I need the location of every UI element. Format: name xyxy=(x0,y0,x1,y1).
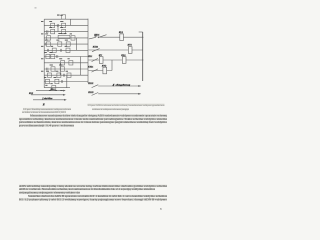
svg-text:veikimo ir valdymo schemos jun: veikimo ir valdymo schemos jungtys xyxy=(92,108,129,111)
wire row 4 xyxy=(88,70,112,72)
left rail xyxy=(43,19,45,88)
wire rung 7 xyxy=(44,56,88,58)
wire rung 2 xyxy=(44,24,88,26)
right rail xyxy=(87,19,89,83)
relay contact K9 xyxy=(58,42,62,46)
relay contact K11 xyxy=(52,48,56,52)
wire rung 4 xyxy=(44,37,88,39)
relay coil K21 xyxy=(67,73,71,77)
contact ticks on rung 10 xyxy=(62,74,64,77)
relay coil KV1 xyxy=(128,47,132,54)
contact tick marks xyxy=(44,24,64,83)
wire branch b xyxy=(57,25,59,31)
svg-text:KL1: KL1 xyxy=(50,88,55,91)
wire rung 6 xyxy=(44,49,88,51)
contact ticks on rung 6 xyxy=(46,49,48,52)
svg-text:KY21: KY21 xyxy=(87,66,93,69)
contact ticks on rung 7 xyxy=(56,55,58,58)
svg-text:Į siurblius: Į siurblius xyxy=(42,97,53,100)
relay coil K1 xyxy=(62,15,66,19)
relay coil K18 xyxy=(61,67,65,71)
relay contact K14 xyxy=(51,54,55,58)
relay contact K4 xyxy=(51,29,55,33)
svg-text:KL2: KL2 xyxy=(28,92,34,95)
contact ticks on rung 2 xyxy=(56,24,58,27)
wire rung 8 xyxy=(44,62,88,64)
relay contact K20 xyxy=(57,73,61,77)
contact KL21 xyxy=(92,85,99,88)
relay contact K13 xyxy=(46,54,50,58)
contact ticks on rung 6 xyxy=(59,49,61,52)
rail junction dot row3 xyxy=(142,59,143,60)
wire rung 5 xyxy=(44,43,88,45)
svg-text:KV1: KV1 xyxy=(127,44,132,47)
svg-text:KV2: KV2 xyxy=(101,64,107,67)
contact ticks on rung 9 xyxy=(46,68,48,71)
relay coil K16 xyxy=(69,61,73,65)
wire branch e xyxy=(59,63,61,75)
contact KL1 xyxy=(92,58,99,61)
relay coil KL1 xyxy=(120,34,124,41)
relay contact K2 xyxy=(51,23,55,27)
svg-text:N: N xyxy=(42,103,45,106)
svg-text:KY11: KY11 xyxy=(93,34,99,37)
left schematic output arrow B with label KL2 xyxy=(31,94,66,96)
relay coil K12 xyxy=(66,48,70,52)
wire rung 11 xyxy=(44,81,88,83)
wire junction row3-row4 xyxy=(111,60,113,71)
relay contact K22 xyxy=(46,79,50,83)
contact ticks on rung 11 xyxy=(60,80,62,83)
relay contact K24 xyxy=(52,86,56,90)
wire branch c xyxy=(76,38,78,50)
svg-text:KL1: KL1 xyxy=(87,55,92,58)
svg-text:KV: KV xyxy=(98,54,103,57)
relay contact K19 xyxy=(48,73,52,77)
wire rung 10 xyxy=(44,74,88,76)
contact ticks on rung 3 xyxy=(46,30,48,33)
contact KT21 xyxy=(92,49,100,52)
relay coil K15 xyxy=(61,61,65,65)
wire rung 12 xyxy=(44,87,70,89)
wire row 2 xyxy=(89,49,143,51)
wire row 1 xyxy=(100,36,143,38)
svg-text:Į degimą: Į degimą xyxy=(111,83,132,86)
output arrow to ignition xyxy=(98,85,141,87)
wire rung 1 xyxy=(44,18,88,20)
relay coil KV xyxy=(99,57,103,64)
svg-text:KT21: KT21 xyxy=(92,45,98,48)
right supply rail xyxy=(142,32,144,81)
rail top tick xyxy=(139,31,143,33)
relay coil KV2 xyxy=(103,67,107,74)
svg-text:KL1: KL1 xyxy=(118,31,123,34)
contact ticks on rung 5 xyxy=(43,43,45,46)
left schematic output arrow C to pumps xyxy=(33,99,67,101)
relay coil K5 xyxy=(62,29,66,33)
svg-text:KL2: KL2 xyxy=(120,54,126,57)
relay contact K8 xyxy=(46,42,50,46)
svg-text:KL21: KL21 xyxy=(87,82,93,85)
wire branch f xyxy=(66,75,68,88)
relay contact K23 xyxy=(55,79,59,83)
relay coil K7 xyxy=(71,36,75,40)
left schematic output arrow A with label KL1 xyxy=(36,90,66,92)
wire row 3 xyxy=(88,59,142,61)
relay contact K17 xyxy=(51,67,55,71)
svg-text:KL 1.2 pažane plienų į orbi KL: KL 1.2 pažane plienų į orbi KL 2 veikimų… xyxy=(19,197,168,201)
relay coil KL2 xyxy=(122,57,126,64)
rail junction dot row1 xyxy=(142,37,143,38)
time relay KT block xyxy=(58,35,70,38)
contact KY21 xyxy=(92,69,99,72)
output arrow B xyxy=(98,93,141,95)
relay coil K3 xyxy=(62,23,66,27)
svg-text:KL22: KL22 xyxy=(87,91,94,94)
wire branch d xyxy=(79,57,81,76)
wire rung 9 xyxy=(44,68,88,70)
component reference labels (illegible scan marks) xyxy=(35,8,73,91)
scan text bands xyxy=(19,104,167,201)
svg-text:3.3 pav. ADS ir schema su laik: 3.3 pav. ADS ir schema su laiko relėmis,… xyxy=(88,104,165,107)
contact KL22 xyxy=(92,93,99,96)
wire rung 3 xyxy=(44,31,88,33)
wire branch a xyxy=(70,19,72,25)
svg-text:pavadinamieji 3.4 pav. schema: pavadinamieji 3.4 pav. schema xyxy=(19,124,75,128)
relay coil K10 xyxy=(66,42,70,46)
switch contact KY11 xyxy=(89,35,107,39)
plus terminal xyxy=(94,35,97,38)
relay contact K6 xyxy=(47,36,51,40)
